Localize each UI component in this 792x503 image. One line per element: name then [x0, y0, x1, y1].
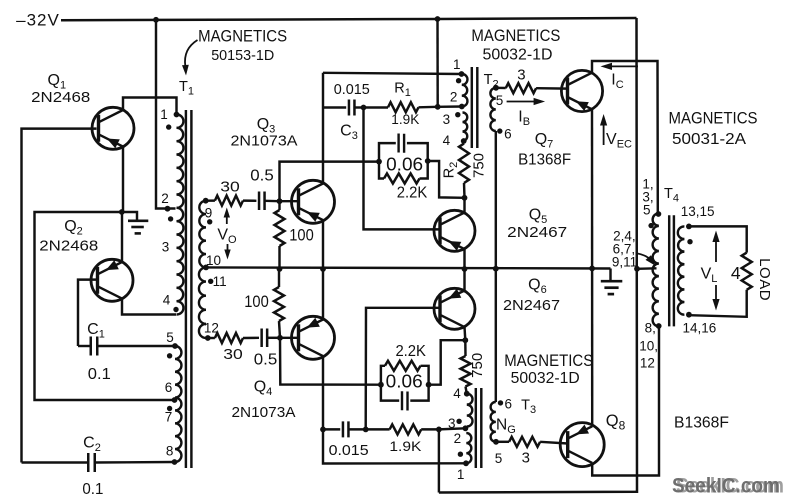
wire Q1 base loop to C2 [22, 129, 97, 463]
node T4 pin 1,3,5 [656, 211, 662, 217]
wire 0.06 box to R2 bottom [428, 161, 465, 198]
node T3 pin1 [463, 460, 469, 466]
resistor 2.2K lower (top branch) [381, 366, 385, 385]
transformer T3 primary winding 2-1 [466, 433, 471, 463]
node T4 polarity dot secondary [687, 239, 692, 244]
svg-text:50032-1D: 50032-1D [511, 370, 580, 387]
svg-text:7: 7 [165, 410, 173, 425]
transistor Q5 2N2467 [434, 210, 475, 251]
capacitor 0.5 lower [243, 337, 259, 340]
svg-text:B1368F: B1368F [674, 414, 729, 431]
node T1 pin5 [172, 343, 178, 349]
transistor Q7 B1368F [561, 70, 602, 111]
wire Q5 emitter to mid rail [463, 249, 465, 269]
svg-text:4: 4 [163, 292, 171, 307]
node T1 pin8 [172, 459, 178, 465]
resistor 30 upper [215, 196, 243, 206]
node T1 pin9 [203, 198, 209, 204]
transistor Q3 2N1073A [292, 180, 335, 223]
svg-text:3: 3 [443, 112, 451, 127]
capacitor C3 0.015 upper [323, 106, 346, 108]
wire right supply vertical (top rail to bottom rail, T4 tap) [439, 18, 637, 493]
node T2 pin5 [493, 85, 499, 91]
node T3 polarity dot pin6 [498, 400, 503, 405]
svg-text:MAGNETICS: MAGNETICS [198, 28, 287, 46]
transformer T3 core [475, 388, 477, 468]
svg-text:B1368F: B1368F [518, 152, 571, 169]
wire Q2 base with C1 tap [78, 280, 98, 346]
wire Q8 collector to T4 pins 8,10,12 [592, 326, 659, 476]
node T3 pin4 [464, 391, 470, 397]
svg-text:6: 6 [505, 397, 513, 412]
node 0.06 box right [425, 158, 431, 164]
transformer T4 primary winding [653, 213, 659, 326]
node T1 pin10 [203, 265, 209, 271]
svg-text:0.015: 0.015 [329, 442, 369, 459]
svg-text:13,15: 13,15 [681, 204, 715, 219]
svg-text:5: 5 [495, 451, 503, 466]
wire Q6 collector down to 750 [463, 327, 466, 340]
svg-text:8,: 8, [645, 321, 656, 336]
wire Q4 base [280, 337, 299, 339]
node T1 polarity dot pin3 [168, 216, 173, 221]
svg-text:2N2467: 2N2467 [503, 297, 560, 314]
node T2pin6 line at mid rail [493, 266, 499, 272]
node T1 polarity dot pin11 [208, 279, 213, 284]
svg-text:50031-2A: 50031-2A [672, 131, 747, 148]
transformer T2 secondary winding 5-6 [490, 88, 495, 131]
node T4 polarity dot primary [648, 223, 653, 228]
node T1 polarity dot pin5 [167, 353, 172, 358]
node junction T4 center tap [634, 266, 640, 272]
svg-text:12: 12 [640, 355, 655, 370]
svg-text:50032-1D: 50032-1D [483, 47, 553, 64]
node T4 secondary top pin 13,15 [686, 224, 692, 230]
ground at mid rail right end [609, 269, 611, 281]
svg-text:–32V: –32V [16, 11, 60, 30]
wire R1 junction to T2 pin2 [438, 105, 462, 108]
node T3 polarity dot pin3 [456, 419, 461, 424]
node T3 pin5 [493, 439, 499, 445]
node T2 polarity dot pin1 [456, 78, 461, 83]
resistor R2 750 [462, 141, 465, 144]
node Q3 base junction [277, 198, 283, 204]
node T1 polarity dot pin9 [207, 219, 212, 224]
wire 1.9K junction to T3 pin3 [439, 428, 466, 429]
node junction top rail to R1/T2 drop [435, 16, 441, 22]
wire T2 pins1/2 drop from rail [436, 19, 439, 107]
transformer T2 primary winding 3-4 [463, 113, 468, 142]
transistor Q6 2N2467 [434, 288, 475, 329]
node T2 pin4 [461, 138, 467, 144]
svg-text:30: 30 [223, 346, 243, 363]
svg-text:5: 5 [496, 93, 504, 108]
svg-text:5: 5 [643, 202, 651, 217]
node 100 upper at rail [277, 266, 283, 272]
node T1 pin2 [165, 206, 171, 212]
transistor Q1 2N2468 [92, 107, 134, 149]
svg-text:3: 3 [162, 239, 170, 254]
resistor 3 upper (T2 pin5 to Q7 base) [496, 87, 506, 90]
resistor 100 lower [278, 269, 280, 287]
wire pin12 to 30 [208, 337, 215, 339]
svg-text:9: 9 [205, 205, 213, 220]
svg-text:3: 3 [522, 450, 530, 467]
wire T2 pin6 to T3 pin6 [495, 131, 497, 402]
svg-text:2N2468: 2N2468 [31, 89, 90, 106]
svg-text:2N2468: 2N2468 [39, 238, 98, 255]
transistor Q4 2N1073A [292, 316, 335, 359]
svg-text:2: 2 [161, 191, 169, 206]
wire Q3 base [280, 200, 300, 202]
svg-text:0.5: 0.5 [254, 352, 278, 369]
arrow VL [715, 238, 717, 262]
svg-text:0.06: 0.06 [386, 154, 423, 174]
capacitor 0.06 lower (bottom branch) [381, 385, 399, 401]
node Q4 base junction [277, 335, 283, 341]
capacitor 0.06 upper (top branch) [379, 143, 396, 162]
arrow label to T4 center tap [638, 254, 653, 263]
node T2 polarity dot pin6 [497, 128, 502, 133]
svg-text:30: 30 [220, 178, 240, 195]
wire Q4 emitter up to mid rail [322, 269, 324, 319]
resistor R1 1.9K [364, 106, 389, 108]
node T2 polarity dot pin3 [455, 112, 460, 117]
wire Q7 collector to T4 pins 1,3,5 [592, 61, 658, 214]
svg-text:5: 5 [166, 330, 174, 345]
transformer T4 core [668, 215, 670, 326]
svg-text:MAGNETICS: MAGNETICS [504, 352, 593, 370]
transformer T1 winding section 5-8 [175, 346, 181, 462]
wire Q5 base line [364, 108, 441, 230]
arrow IB [507, 101, 534, 103]
node Q1/Q2 emitter ground junction [119, 209, 125, 215]
ground near Q1/Q2 emitters [122, 212, 138, 220]
node R1 right junction [435, 104, 441, 110]
svg-text:4: 4 [443, 133, 451, 148]
wire Q3 emitter up to top line and C3 line [322, 73, 324, 184]
node 750 top junction [462, 337, 468, 343]
svg-text:2: 2 [454, 431, 462, 446]
svg-text:LOAD: LOAD [756, 258, 773, 301]
node 0.06 lower box left [378, 382, 384, 388]
wire mid emitter rail (T1 pin10 to ground) [206, 267, 611, 268]
svg-text:2N1073A: 2N1073A [231, 133, 298, 150]
node T1 pin1 [174, 112, 180, 118]
wire T1 pin2 from -32V rail [156, 20, 176, 209]
svg-text:50153-1D: 50153-1D [211, 48, 274, 64]
resistor 2.2K upper (bottom branch) [379, 162, 384, 179]
node Q3 collector at rail [320, 266, 326, 272]
resistor 100 upper [278, 201, 280, 210]
node 0.06 lower box right [426, 382, 432, 388]
wire Q6 base line [366, 308, 440, 430]
svg-text:10,: 10, [639, 338, 658, 353]
wire top -32V rail [61, 18, 637, 20]
node Q5 emitter at rail [462, 266, 468, 272]
svg-text:0.015: 0.015 [334, 81, 370, 98]
node T2 pin1 [459, 71, 465, 77]
resistor LOAD 4 ohm [742, 253, 752, 290]
wire Q1 collector to T1 pin1 [123, 98, 177, 115]
transformer T2 core [471, 67, 473, 148]
wire Q4 base to lower 0.06 box (feedback) [280, 338, 381, 385]
node 0.06 box left [376, 159, 382, 165]
node T4 pin 8,10,12 [656, 323, 662, 329]
svg-text:100: 100 [244, 292, 269, 311]
wire load top [689, 226, 747, 252]
transistor Q8 B1368F [560, 423, 604, 467]
svg-text:1.9K: 1.9K [389, 438, 422, 454]
transformer T1 core [185, 110, 187, 468]
svg-text:100: 100 [289, 226, 314, 245]
svg-text:8: 8 [166, 444, 174, 459]
svg-text:1: 1 [457, 467, 465, 482]
node junction top rail to T1 pin2 drop [153, 17, 159, 23]
svg-text:14,16: 14,16 [683, 321, 717, 336]
wire T4 center tap stub [637, 267, 657, 270]
node T1 polarity dot pin1 [166, 124, 171, 129]
label Vo with arrows [226, 213, 228, 224]
svg-text:2.2K: 2.2K [397, 185, 428, 202]
transformer T3 primary winding 4-3 [467, 394, 473, 427]
svg-text:0.5: 0.5 [250, 168, 274, 185]
capacitor C2 0.1 [22, 461, 89, 463]
svg-text:6: 6 [165, 380, 173, 395]
svg-text:4: 4 [731, 263, 741, 283]
transformer T1 secondary winding 11-12 [199, 267, 206, 338]
node T1 polarity dot pin7 [167, 406, 172, 411]
wire top line to T2 pin1 [323, 73, 462, 74]
node T1 pin12 [205, 335, 211, 341]
svg-text:SeekIC.com: SeekIC.com [672, 475, 780, 498]
svg-text:2N1073A: 2N1073A [232, 404, 296, 421]
svg-text:6: 6 [504, 127, 512, 142]
svg-text:MAGNETICS: MAGNETICS [669, 109, 758, 127]
wire Q1 emitter down to ground node [122, 146, 124, 212]
resistor 1.9K lower [366, 428, 390, 430]
svg-text:750: 750 [470, 153, 487, 178]
wire Q5 collector up to R2 [463, 198, 465, 213]
svg-text:9,11: 9,11 [612, 254, 637, 269]
svg-text:3: 3 [448, 416, 456, 431]
wire load bottom [689, 290, 747, 317]
svg-text:2.2K: 2.2K [395, 343, 426, 360]
node 1.9K right junction [436, 427, 442, 433]
node junction lower 0.015 / Q6 base line [363, 427, 369, 433]
node T1 pin4 [173, 307, 178, 312]
node Q4 collector at 0.015 line [320, 427, 326, 433]
node T1 pin6 [172, 397, 178, 403]
transistor Q2 2N2468 [91, 259, 133, 301]
svg-text:MAGNETICS: MAGNETICS [471, 27, 560, 45]
wire Q3 base to 0.06 box (feedback) [280, 162, 380, 202]
capacitor 0.5 upper [243, 199, 256, 202]
wire T3 pin1 line [323, 429, 466, 463]
arrow from label to T1 [185, 40, 198, 66]
arrow VEC [603, 122, 605, 145]
node R2 bottom junction [462, 195, 468, 201]
transformer T1 primary winding section 1-4 [177, 114, 184, 314]
svg-text:0.1: 0.1 [82, 481, 103, 498]
svg-text:11: 11 [213, 274, 227, 289]
transformer T1 secondary winding 9-10 [199, 201, 206, 268]
node T3 pin3 wire end [463, 425, 469, 431]
capacitor 0.015 lower [323, 428, 340, 430]
svg-text:1.9K: 1.9K [391, 111, 420, 127]
transformer T4 secondary winding [678, 226, 685, 314]
wire emitter return to T1 pin6 [35, 212, 175, 400]
svg-text:10: 10 [206, 253, 221, 268]
svg-text:2: 2 [450, 90, 458, 105]
transformer T2 primary winding 1-2 [462, 74, 468, 107]
svg-text:1: 1 [160, 107, 168, 122]
transformer T3 secondary winding 6-5 [491, 402, 496, 442]
wire lower 0.06 box to 750 top [429, 340, 466, 385]
wire Q3 collector to mid rail [322, 220, 324, 269]
svg-text:0.1: 0.1 [88, 366, 111, 383]
wire pin9 to 30 [206, 199, 215, 202]
svg-text:0.06: 0.06 [386, 372, 423, 392]
node T3 polarity dot pin2 [458, 452, 463, 457]
svg-text:1: 1 [453, 57, 461, 72]
capacitor C1 0.1 [78, 345, 91, 347]
resistor 750 lower [464, 340, 467, 356]
svg-text:2N2467: 2N2467 [507, 224, 567, 241]
wire Q7 emitter down to Q8 emitter [591, 109, 594, 426]
resistor 3 lower (T3 pin5 to Q8 base) [496, 441, 509, 443]
wire Q2 collector to T1 pin4 [122, 298, 176, 314]
svg-text:3: 3 [517, 67, 525, 84]
svg-text:4: 4 [453, 386, 461, 401]
wire Q2 emitter up to ground node [121, 212, 123, 262]
arrow IC [612, 65, 638, 67]
resistor 30 lower [215, 333, 243, 343]
node T2 pin2 [459, 104, 465, 110]
wire Q4 collector down to 0.015 line [322, 356, 324, 429]
node junction C3 / Q5 base line [361, 105, 367, 111]
wire 1.9K junction down to bottom rail [438, 429, 440, 492]
svg-text:750: 750 [469, 353, 486, 378]
wire Q6 emitter to mid rail [463, 269, 465, 291]
node Q7/Q8 emitter line at mid rail [589, 266, 595, 272]
node T4 secondary bottom pin 14,16 [686, 312, 692, 318]
